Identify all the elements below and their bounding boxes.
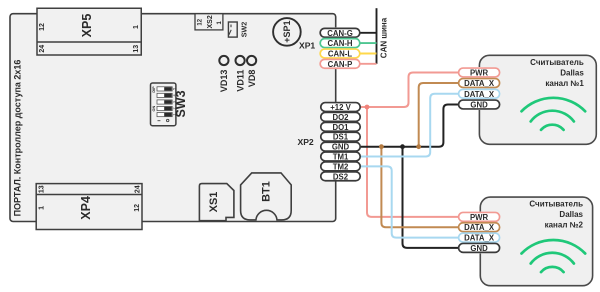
switch SW2	[228, 22, 248, 38]
wire reader1 DATA_X to GND bus (brown)	[419, 83, 459, 147]
connector XP5	[37, 8, 141, 55]
LED VD13	[219, 56, 229, 92]
svg-text:DO1: DO1	[332, 123, 349, 132]
svg-text:12: 12	[134, 204, 141, 212]
pin reader1 PWR	[459, 68, 500, 77]
wire TM1 to reader1 DATA_X (blue)	[360, 94, 458, 157]
svg-text:Считыватель: Считыватель	[530, 58, 584, 67]
svg-text:CAN-P: CAN-P	[328, 60, 353, 69]
edge mask behind XP1 pins	[332, 27, 341, 68]
reader 2 antenna arcs	[522, 240, 586, 272]
edge mask behind XP2 pins	[332, 102, 341, 181]
pin DO2	[321, 112, 360, 121]
CAN bus line	[376, 8, 378, 64]
reader 2 box	[480, 197, 592, 286]
svg-text:DS1: DS1	[333, 133, 349, 142]
pin DS2	[321, 172, 360, 181]
DIP switch SW3	[151, 83, 188, 126]
svg-text:1: 1	[133, 25, 140, 29]
svg-text:5: 5	[172, 88, 176, 90]
reader 1 antenna arcs	[522, 98, 586, 130]
wire reader2 DATA_X to GND bus (brown)	[381, 147, 458, 228]
pin +12 V	[321, 103, 360, 112]
svg-text:12: 12	[198, 18, 204, 25]
reader 1 box	[479, 55, 596, 144]
svg-text:GND: GND	[470, 101, 488, 110]
pin DS1	[321, 132, 360, 141]
svg-text:VD8: VD8	[247, 70, 257, 88]
svg-text:DATA_X: DATA_X	[464, 79, 495, 88]
wire GND branch to reader2 GND (black)	[403, 147, 459, 248]
LED VD8	[247, 56, 257, 87]
node +12V branch	[365, 105, 370, 110]
pin CAN-H	[320, 39, 360, 48]
edge mask behind reader1 pins	[476, 67, 485, 110]
svg-text:DATA_X: DATA_X	[464, 223, 495, 232]
edge mask behind reader2 pins	[477, 212, 486, 254]
svg-text:XP2: XP2	[297, 137, 313, 147]
svg-text:ON: ON	[152, 106, 156, 112]
svg-text:CAN-G: CAN-G	[327, 29, 353, 38]
connector XS1	[199, 184, 234, 221]
svg-text:13: 13	[38, 185, 45, 193]
pin CAN-G	[320, 28, 360, 37]
pin DO1	[321, 122, 360, 131]
svg-text:+12 V: +12 V	[330, 103, 351, 112]
pin reader1 GND	[459, 100, 500, 109]
wire +12V to reader1 PWR (salmon)	[360, 73, 458, 108]
svg-text:24: 24	[39, 45, 46, 53]
svg-text:DO2: DO2	[332, 113, 349, 122]
wire CAN-L	[358, 53, 377, 55]
svg-text:XP1: XP1	[299, 40, 315, 50]
svg-text:GND: GND	[332, 143, 350, 152]
svg-text:CAN шина: CAN шина	[379, 17, 388, 58]
svg-text:DS2: DS2	[333, 172, 349, 181]
svg-text:VD13: VD13	[219, 70, 229, 93]
svg-text:BT1: BT1	[261, 181, 273, 202]
pin reader2 GND	[459, 243, 500, 252]
svg-text:GND: GND	[470, 244, 488, 253]
svg-text:TM2: TM2	[333, 162, 349, 171]
controller board PORTAL	[10, 14, 336, 222]
LED VD11	[235, 56, 245, 92]
svg-text:24: 24	[135, 185, 142, 193]
node brown reader2	[379, 144, 384, 149]
svg-text:Dallas: Dallas	[559, 210, 583, 219]
svg-text:CAN-H: CAN-H	[327, 39, 352, 48]
svg-text:SW2: SW2	[239, 22, 248, 38]
svg-text:канал №2: канал №2	[545, 221, 584, 230]
pin CAN-L	[320, 49, 360, 58]
node brown reader1	[416, 144, 421, 149]
svg-text:+SP1: +SP1	[282, 20, 292, 42]
pin reader1 DATA_X (brown)	[459, 79, 500, 88]
svg-text:канал №1: канал №1	[545, 79, 584, 88]
buzzer SP1	[273, 18, 301, 46]
svg-text:VD11: VD11	[235, 70, 245, 92]
wire +12V branch to reader2 PWR (salmon)	[367, 107, 459, 217]
svg-text:ПОРТАЛ. Контроллер доступа 2х1: ПОРТАЛ. Контроллер доступа 2х16	[13, 60, 23, 217]
svg-text:DIP: DIP	[152, 86, 156, 93]
pin reader2 PWR	[459, 212, 500, 221]
node GND branch	[400, 144, 405, 149]
pin reader2 DATA_X (brown)	[459, 223, 500, 232]
svg-text:CAN-L: CAN-L	[328, 50, 352, 59]
wire TM2 to reader2 DATA_X (blue)	[360, 166, 458, 237]
connector XS2	[195, 14, 223, 30]
pin CAN-P	[320, 59, 360, 68]
wire CAN-H	[358, 42, 377, 44]
pin TM1	[321, 152, 360, 161]
svg-text:PWR: PWR	[470, 69, 489, 78]
svg-text:XP4: XP4	[79, 196, 93, 220]
pin reader2 DATA_X (blue)	[459, 233, 500, 242]
svg-text:13: 13	[133, 45, 140, 53]
pin reader1 DATA_X (blue)	[459, 89, 500, 98]
pin GND	[321, 142, 360, 151]
svg-text:Dallas: Dallas	[560, 68, 584, 77]
svg-text:SW3: SW3	[174, 90, 188, 117]
wire CAN-G	[358, 32, 377, 34]
svg-text:DATA_X: DATA_X	[464, 234, 495, 243]
wire CAN-P	[358, 63, 377, 65]
svg-text:12: 12	[39, 23, 46, 31]
svg-text:XP5: XP5	[80, 14, 94, 38]
svg-text:1: 1	[38, 206, 45, 210]
svg-text:XS1: XS1	[208, 192, 220, 213]
wire GND to reader1 GND (black)	[360, 105, 458, 147]
battery BT1	[241, 173, 292, 220]
svg-text:PWR: PWR	[470, 213, 489, 222]
connector XP4	[36, 184, 142, 230]
svg-text:XS2: XS2	[207, 15, 214, 28]
svg-text:DATA_X: DATA_X	[464, 90, 495, 99]
svg-text:TM1: TM1	[333, 153, 349, 162]
pin TM2	[321, 162, 360, 171]
svg-text:Считыватель: Считыватель	[529, 200, 583, 209]
